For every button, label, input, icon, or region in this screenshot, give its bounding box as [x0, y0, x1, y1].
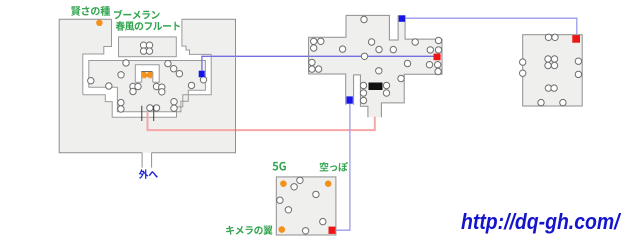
link line blue B: map2 top blue door to map3 red door — [405, 18, 577, 35]
map 3 objects (circles) — [520, 34, 582, 106]
map 1 door ticks — [142, 106, 154, 121]
link line pink: map1 lower door to map2 bottom corridor — [148, 113, 375, 131]
map 2 objects (circles) — [309, 16, 442, 103]
map 1 room band edges — [83, 19, 211, 117]
label ブーメラン — [114, 10, 160, 20]
link line blue C: map2 bottom blue door to map4 red door — [335, 104, 350, 230]
label 空っぽ — [320, 162, 348, 172]
map edge overdraw where link lines pass under — [236, 52, 309, 136]
map 1 alcove (white band) — [135, 65, 159, 83]
label キメラの翼 — [226, 226, 272, 235]
label 外へ — [139, 169, 158, 179]
map 1 treasure chest — [141, 70, 152, 73]
map 1 exit corridor walls — [142, 153, 152, 168]
map 3 red door square — [572, 35, 580, 43]
label 5G — [273, 162, 286, 171]
map 1 outline with door gaps — [59, 19, 235, 153]
map 2 outline with open corridor mouths — [309, 15, 442, 117]
map 2 red door square — [434, 54, 441, 61]
map 1 room corridor band (white) — [83, 18, 211, 117]
map 2 bottom blue door square — [346, 96, 352, 103]
map 2 (middle) floor — [309, 15, 442, 117]
map 2 black block — [369, 83, 383, 91]
map 1 objects (circles) — [88, 42, 207, 112]
link line blue A: map1 blue door to map2 red door — [202, 56, 434, 70]
map 1 item dot (seed of wisdom) — [96, 20, 103, 27]
map 1 (left) floor — [59, 19, 235, 153]
map 4 (bottom) floor — [276, 177, 336, 235]
svg-text:http://dq-gh.com/: http://dq-gh.com/ — [461, 209, 622, 234]
map 3 (right) floor — [523, 35, 583, 106]
map 1 room interior island — [89, 61, 206, 112]
map 1 wall block island — [119, 37, 177, 57]
map 4 objects (circles) — [277, 177, 326, 234]
map 4 red door square — [329, 227, 336, 234]
label 賢さの種 — [71, 6, 110, 16]
map 4 item dots — [280, 180, 287, 187]
map 2 top blue door square — [399, 15, 405, 21]
label 春風のフルート — [116, 21, 180, 31]
map 1 blue door square — [199, 71, 205, 78]
